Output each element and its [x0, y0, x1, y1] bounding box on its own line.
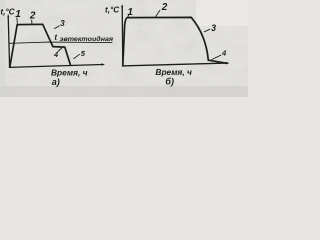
leader for label 4 [58, 48, 62, 52]
svg-text:t,°C: t,°C [105, 6, 120, 15]
right curve: heat 1, long hold 2, cool 3, slow cool 4 [123, 17, 227, 65]
svg-text:t,°C: t,°C [0, 8, 15, 17]
right x-axis arrowhead [226, 62, 229, 65]
leader for label 5 [74, 54, 80, 58]
right x-axis [123, 63, 228, 66]
leader for label 3 [54, 26, 59, 29]
eutectoid temperature line [10, 42, 112, 43]
paper grain noise [0, 0, 248, 97]
leader for label 1 [16, 18, 18, 24]
leader for right label 4 [212, 55, 221, 59]
svg-text:4: 4 [53, 50, 58, 59]
left y-axis [8, 16, 9, 67]
darker bottom band [0, 86, 248, 97]
left x-axis arrowhead [102, 63, 105, 66]
leader for right label 2 [155, 10, 160, 17]
leader for right label 3 [204, 29, 210, 32]
left x-axis [9, 65, 102, 68]
svg-text:Время, ч: Время, ч [155, 67, 192, 77]
svg-text:1: 1 [127, 7, 133, 18]
svg-text:3: 3 [60, 19, 65, 28]
right y-axis arrowhead [121, 4, 123, 7]
svg-text:а): а) [52, 77, 60, 87]
right y-axis [121, 6, 124, 66]
svg-text:б): б) [165, 77, 174, 87]
paper background [0, 0, 248, 97]
svg-text:2: 2 [29, 11, 36, 22]
svg-text:t: t [54, 33, 57, 42]
leader for label 2 [31, 20, 33, 24]
svg-text:1: 1 [15, 9, 21, 20]
svg-text:эвтектоидная: эвтектоидная [60, 35, 114, 43]
leader for right label 1 [127, 15, 130, 17]
left y-axis arrowhead [7, 14, 9, 17]
left curve: heat 1, hold 2, cool 3, isothermal hold 4, cool 5 [10, 24, 71, 67]
svg-text:4: 4 [221, 48, 227, 57]
svg-text:3: 3 [211, 23, 216, 33]
svg-text:2: 2 [161, 2, 168, 13]
